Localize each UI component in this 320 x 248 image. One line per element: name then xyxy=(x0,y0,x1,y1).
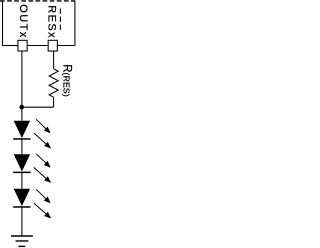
LED D2 light arrows xyxy=(34,154,50,182)
wire junction to LED1 xyxy=(21,107,23,121)
IC bottom edge segment left xyxy=(3,45,18,47)
svg-text:OUTx: OUTx xyxy=(17,4,29,38)
LED D1 light arrows xyxy=(34,119,50,147)
wire right vertical (RESx to top) xyxy=(74,1,76,46)
node junction dot xyxy=(19,105,24,110)
IC boundary right dashed edge xyxy=(59,9,61,31)
wire LED3 to ground xyxy=(21,207,23,236)
wire OUTx down to junction xyxy=(21,51,23,107)
LED D3 light arrows xyxy=(34,189,50,217)
svg-text:RESx: RESx xyxy=(45,5,57,39)
pin RESx terminal box xyxy=(48,40,57,51)
IC boundary top dashed edge xyxy=(0,0,75,2)
LED D1 xyxy=(13,121,30,140)
wire RESx down to resistor xyxy=(53,51,55,69)
LED D2 xyxy=(13,154,30,173)
wire RESx to right vertical xyxy=(57,45,75,47)
wire resistor to horizontal xyxy=(53,97,55,107)
IC boundary left edge xyxy=(2,0,4,45)
LED D3 xyxy=(13,189,30,208)
resistor R(RES) zigzag xyxy=(49,69,58,98)
wire LED1 to LED2 xyxy=(21,140,23,155)
wire LED2 to LED3 xyxy=(21,173,23,189)
svg-text:R(RES): R(RES) xyxy=(60,64,72,97)
pin OUTx terminal box xyxy=(18,40,27,51)
IC bottom edge segment middle xyxy=(27,45,48,47)
ground xyxy=(11,236,33,246)
wire junction to resistor bottom xyxy=(22,106,54,108)
